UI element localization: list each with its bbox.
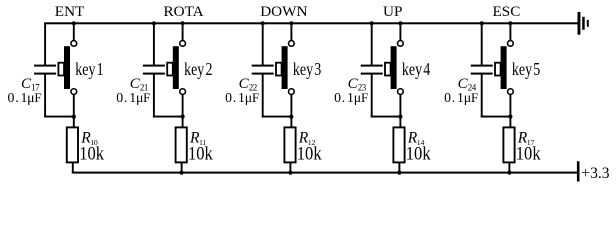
- svg-text:ROTA: ROTA: [164, 3, 204, 20]
- svg-text:10k: 10k: [188, 142, 213, 163]
- svg-text:10k: 10k: [297, 142, 322, 163]
- svg-text:0.1μF: 0.1μF: [116, 90, 150, 105]
- svg-text:ESC: ESC: [493, 3, 521, 20]
- svg-text:0.1μF: 0.1μF: [334, 90, 368, 105]
- svg-text:key5: key5: [512, 60, 540, 79]
- svg-text:ENT: ENT: [55, 3, 85, 20]
- svg-text:key2: key2: [184, 60, 212, 79]
- svg-text:DOWN: DOWN: [260, 3, 307, 20]
- svg-text:UP: UP: [383, 3, 402, 20]
- svg-text:0.1μF: 0.1μF: [444, 90, 478, 105]
- svg-text:0.1μF: 0.1μF: [225, 90, 259, 105]
- svg-text:key3: key3: [293, 60, 321, 79]
- svg-text:0.1μF: 0.1μF: [8, 90, 42, 105]
- svg-text:10k: 10k: [406, 142, 431, 163]
- svg-text:+3.3: +3.3: [581, 165, 609, 182]
- svg-text:10k: 10k: [79, 142, 104, 163]
- svg-text:key4: key4: [402, 60, 430, 79]
- svg-text:10k: 10k: [516, 142, 541, 163]
- svg-text:key1: key1: [75, 60, 103, 79]
